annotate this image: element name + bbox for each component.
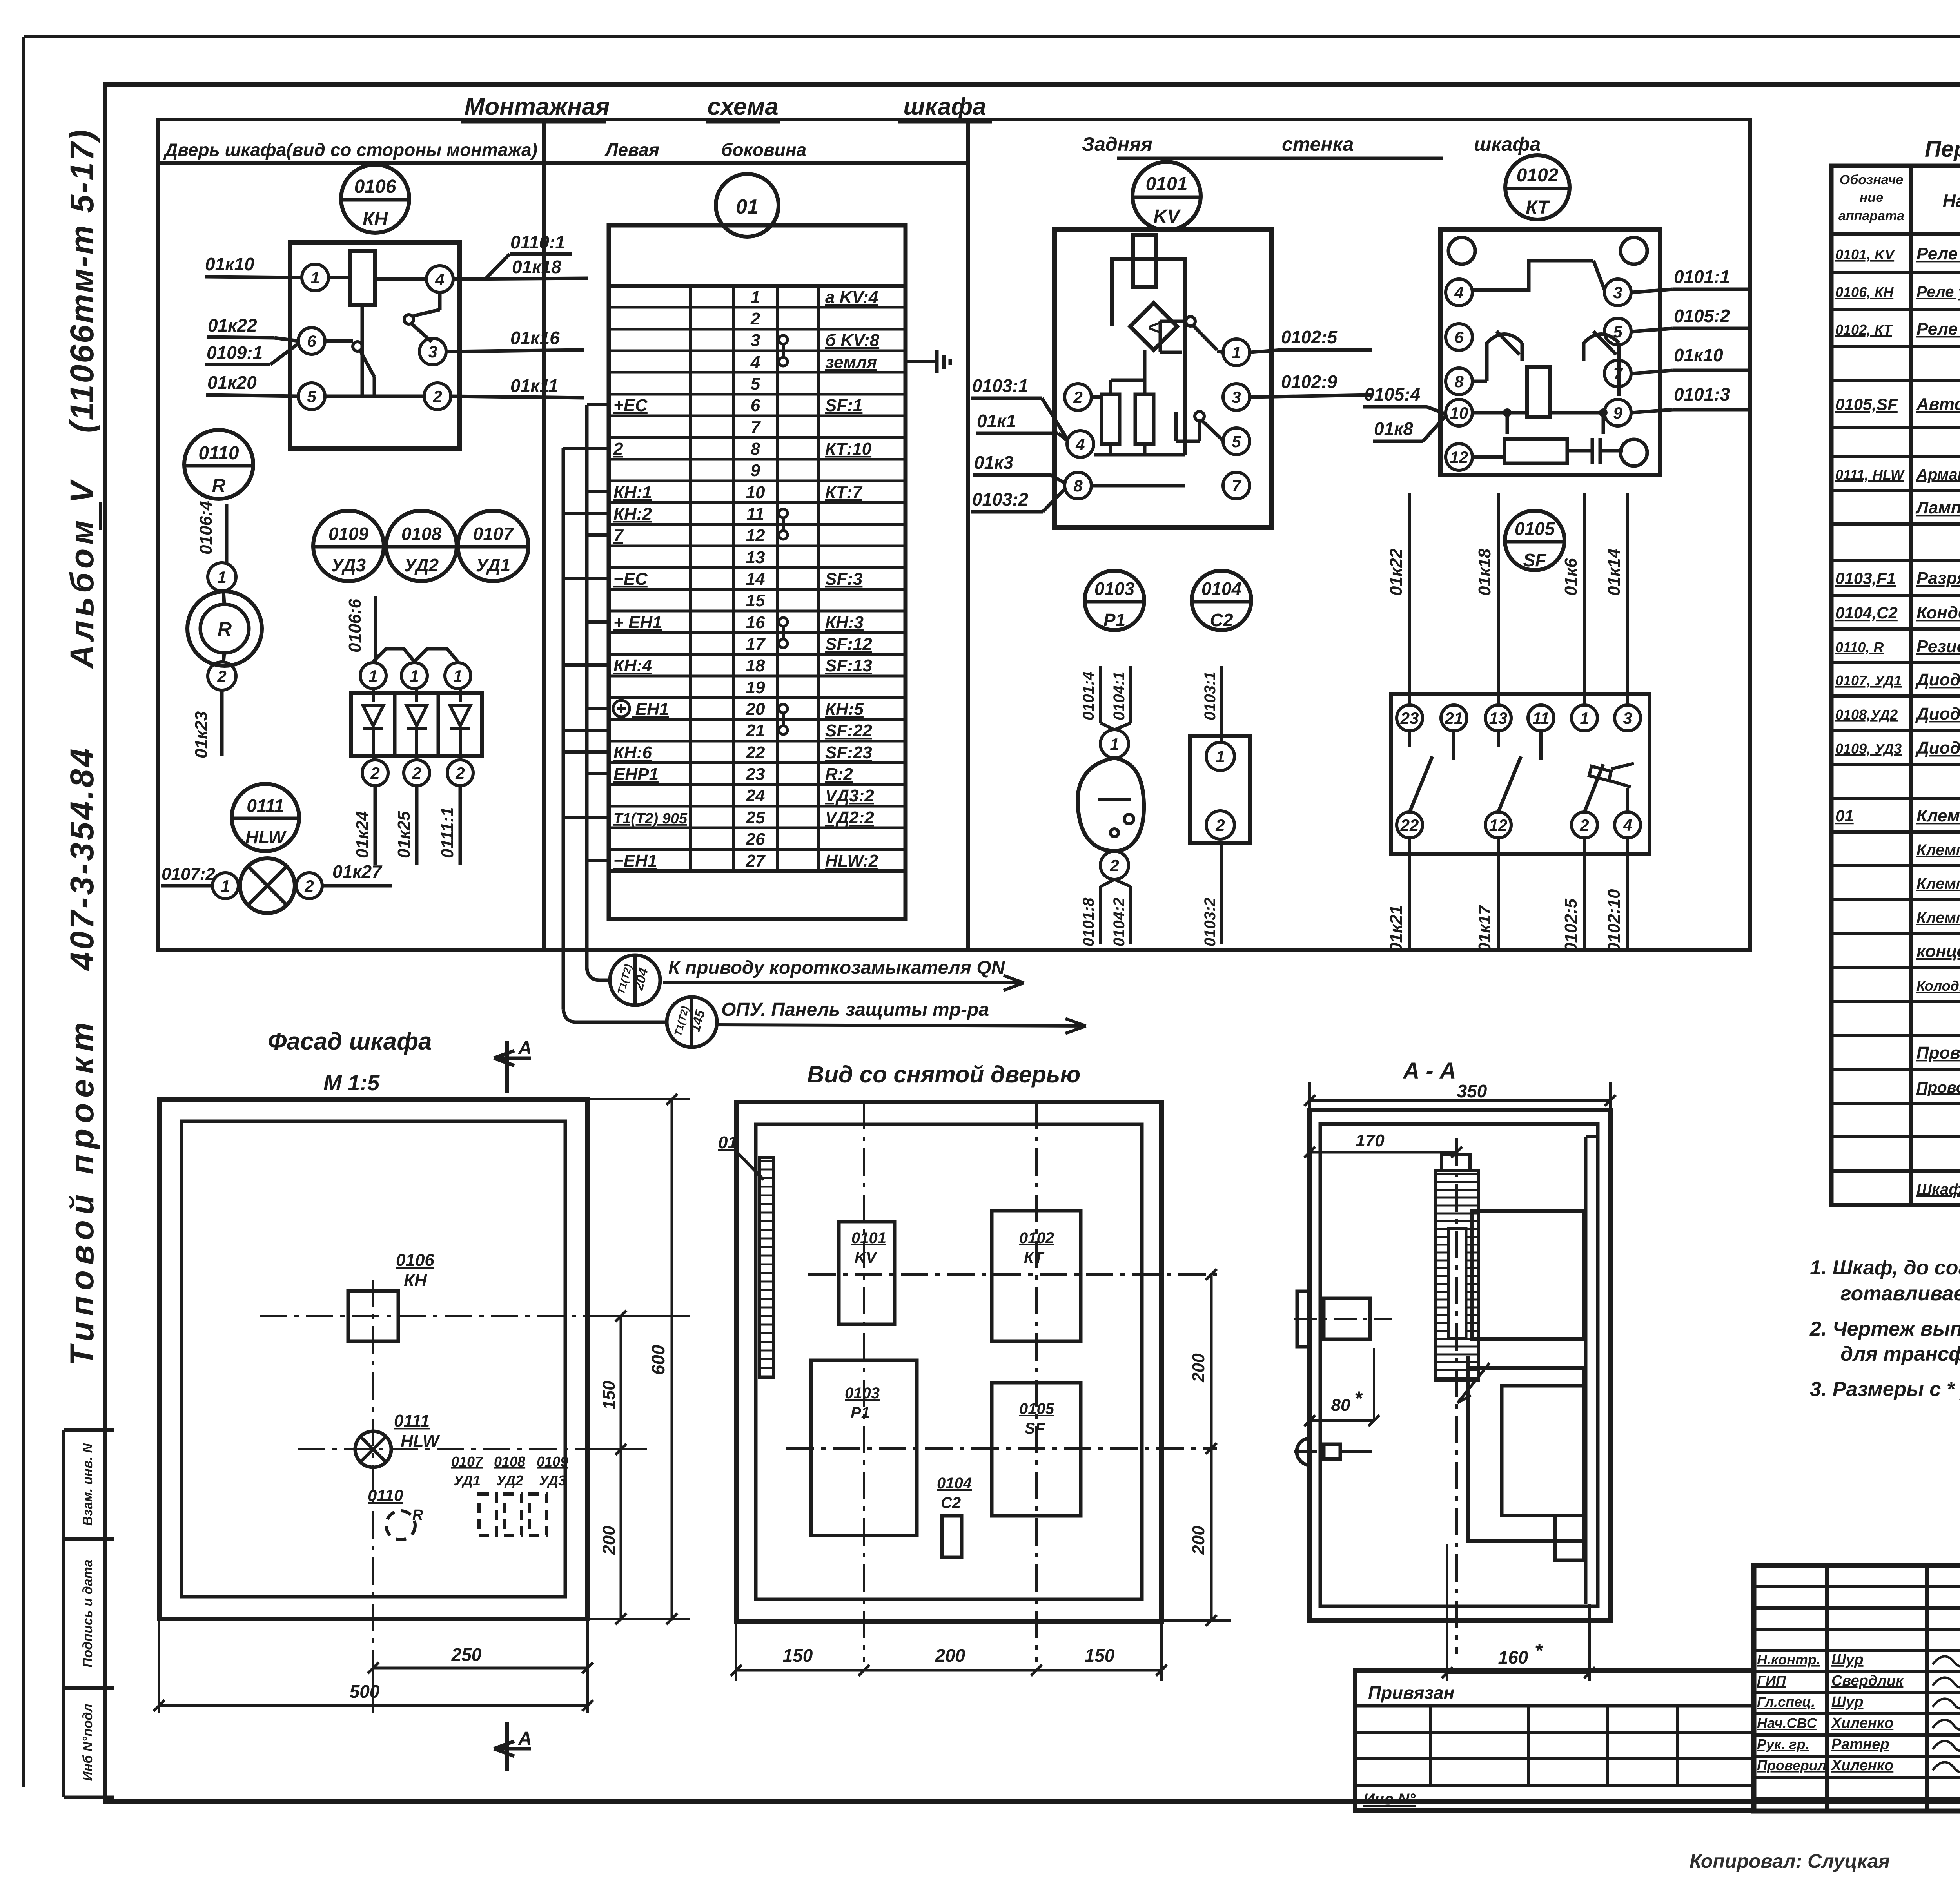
svg-text:Н.контр.: Н.контр. bbox=[1757, 1651, 1820, 1668]
svg-text:Реле указательное: Реле указательное bbox=[1916, 283, 1960, 301]
svg-text:<: < bbox=[1148, 316, 1160, 339]
svg-text:200: 200 bbox=[1189, 1526, 1208, 1555]
svg-text:1: 1 bbox=[410, 667, 419, 685]
svg-text:Р1: Р1 bbox=[851, 1404, 870, 1421]
svg-text:Вид со снятой дверью: Вид со снятой дверью bbox=[807, 1061, 1080, 1088]
svg-text:7: 7 bbox=[613, 526, 624, 545]
svg-text:200: 200 bbox=[1189, 1353, 1208, 1383]
svg-text:Клемма специальная: Клемма специальная bbox=[1916, 909, 1960, 926]
svg-text:160: 160 bbox=[1498, 1647, 1528, 1668]
svg-text:350: 350 bbox=[1457, 1081, 1487, 1101]
svg-text:0106:4: 0106:4 bbox=[196, 501, 216, 555]
svg-text:УД2: УД2 bbox=[496, 1472, 523, 1488]
svg-text:SF:13: SF:13 bbox=[825, 656, 872, 675]
svg-text:4: 4 bbox=[1622, 816, 1632, 834]
svg-text:Дверь шкафа(вид со стороны мон: Дверь шкафа(вид со стороны монтажа) bbox=[163, 140, 537, 160]
svg-text:0111:1: 0111:1 bbox=[438, 807, 457, 858]
svg-text:0108: 0108 bbox=[401, 524, 442, 544]
svg-text:КН:5: КН:5 bbox=[825, 700, 864, 719]
svg-text:24: 24 bbox=[746, 786, 765, 805]
svg-text:01к24: 01к24 bbox=[353, 811, 372, 858]
svg-text:Лампа сигнальная: Лампа сигнальная bbox=[1915, 498, 1960, 517]
svg-text:КН:2: КН:2 bbox=[613, 504, 652, 524]
svg-text:0107: 0107 bbox=[473, 524, 514, 544]
svg-text:0106: 0106 bbox=[396, 1251, 434, 1270]
svg-text:200: 200 bbox=[935, 1645, 965, 1666]
svg-text:КН: КН bbox=[363, 209, 388, 230]
svg-text:01к18: 01к18 bbox=[1475, 548, 1494, 596]
svg-text:шкафа: шкафа bbox=[1474, 133, 1541, 155]
svg-text:УД3: УД3 bbox=[331, 555, 366, 575]
svg-text:0108,УД2: 0108,УД2 bbox=[1835, 707, 1898, 723]
svg-text:150: 150 bbox=[783, 1645, 813, 1666]
svg-text:1: 1 bbox=[1580, 709, 1589, 727]
svg-text:3: 3 bbox=[1613, 283, 1622, 302]
svg-text:Т1(Т2) 905: Т1(Т2) 905 bbox=[613, 810, 688, 827]
svg-text:УД1: УД1 bbox=[476, 555, 510, 575]
svg-text:0105: 0105 bbox=[1515, 518, 1555, 539]
svg-text:0107: 0107 bbox=[451, 1454, 483, 1470]
svg-text:0111: 0111 bbox=[247, 796, 284, 816]
svg-text:2: 2 bbox=[432, 387, 442, 406]
svg-text:Рук. гр.: Рук. гр. bbox=[1757, 1736, 1809, 1752]
svg-text:0111: 0111 bbox=[394, 1411, 430, 1430]
svg-text:11: 11 bbox=[1532, 709, 1550, 727]
svg-text:0104:2: 0104:2 bbox=[1111, 897, 1128, 946]
svg-text:Подпись и дата: Подпись и дата bbox=[80, 1559, 95, 1668]
svg-text:КТ:7: КТ:7 bbox=[825, 483, 863, 502]
svg-text:Арматура сигнальная: Арматура сигнальная bbox=[1916, 466, 1960, 483]
svg-text:3: 3 bbox=[1232, 388, 1241, 406]
svg-text:Инв.N°: Инв.N° bbox=[1363, 1791, 1416, 1808]
svg-text:земля: земля bbox=[825, 353, 877, 372]
svg-text:01: 01 bbox=[736, 196, 759, 218]
svg-text:0109:1: 0109:1 bbox=[207, 343, 263, 363]
svg-text:250: 250 bbox=[451, 1644, 482, 1665]
svg-text:Автомат: Автомат bbox=[1916, 395, 1960, 414]
svg-text:SF:23: SF:23 bbox=[825, 743, 872, 762]
svg-text:SF:12: SF:12 bbox=[825, 634, 872, 654]
svg-text:0103:2: 0103:2 bbox=[1201, 897, 1219, 946]
svg-text:200: 200 bbox=[599, 1526, 619, 1555]
svg-text:1. Шкаф, до согласования со: 1. Шкаф, до согласования со щитостроител… bbox=[1810, 1256, 1960, 1279]
svg-text:0107:2: 0107:2 bbox=[162, 865, 216, 884]
svg-text:концевая: концевая bbox=[1916, 942, 1960, 961]
svg-text:2: 2 bbox=[217, 667, 226, 685]
svg-text:7: 7 bbox=[1232, 477, 1241, 495]
svg-text:б KV:8: б KV:8 bbox=[825, 331, 880, 350]
svg-text:01к10: 01к10 bbox=[205, 254, 254, 274]
svg-text:7: 7 bbox=[751, 418, 761, 437]
svg-text:Ратнер: Ратнер bbox=[1831, 1736, 1889, 1753]
svg-text:3: 3 bbox=[428, 343, 437, 361]
svg-text:*: * bbox=[1354, 1387, 1363, 1409]
svg-text:Хиленко: Хиленко bbox=[1831, 1757, 1893, 1774]
svg-text:1: 1 bbox=[1232, 343, 1241, 362]
svg-text:4: 4 bbox=[1075, 435, 1085, 453]
svg-text:*: * bbox=[1535, 1640, 1544, 1662]
svg-text:С2: С2 bbox=[1210, 610, 1233, 630]
svg-text:0110:1: 0110:1 bbox=[510, 232, 565, 252]
svg-text:боковина: боковина bbox=[721, 140, 806, 160]
svg-text:0103,F1: 0103,F1 bbox=[1835, 569, 1896, 587]
svg-text:0110: 0110 bbox=[198, 443, 239, 464]
svg-text:0105:2: 0105:2 bbox=[1674, 306, 1730, 326]
svg-text:R:2: R:2 bbox=[825, 765, 853, 784]
svg-text:Монтажная: Монтажная bbox=[465, 93, 610, 120]
svg-text:150: 150 bbox=[1085, 1645, 1115, 1666]
svg-text:−ЕС: −ЕС bbox=[613, 569, 648, 589]
svg-text:R: R bbox=[218, 618, 232, 640]
svg-text:HLW: HLW bbox=[245, 827, 287, 847]
svg-text:80: 80 bbox=[1331, 1396, 1350, 1415]
svg-text:1: 1 bbox=[1216, 747, 1225, 766]
svg-text:Фасад шкафа: Фасад шкафа bbox=[268, 1028, 432, 1055]
svg-text:25: 25 bbox=[746, 808, 765, 827]
svg-text:2: 2 bbox=[1073, 388, 1082, 406]
svg-text:2: 2 bbox=[750, 309, 760, 328]
svg-text:2: 2 bbox=[1215, 816, 1225, 834]
svg-text:Гл.спец.: Гл.спец. bbox=[1757, 1694, 1815, 1710]
svg-text:SF:3: SF:3 bbox=[825, 569, 862, 589]
svg-text:а KV:4: а KV:4 bbox=[825, 288, 878, 307]
svg-text:2: 2 bbox=[412, 764, 421, 782]
svg-text:SF:22: SF:22 bbox=[825, 721, 872, 740]
svg-text:17: 17 bbox=[746, 634, 766, 654]
svg-text:0104,С2: 0104,С2 bbox=[1835, 604, 1898, 622]
svg-text:R: R bbox=[212, 475, 226, 496]
svg-text:18: 18 bbox=[746, 656, 765, 675]
svg-text:11: 11 bbox=[746, 504, 764, 524]
svg-text:26: 26 bbox=[746, 830, 765, 849]
svg-text:150: 150 bbox=[599, 1381, 619, 1410]
svg-text:0103: 0103 bbox=[845, 1385, 880, 1402]
svg-text:VД3:2: VД3:2 bbox=[825, 786, 874, 805]
svg-text:0104: 0104 bbox=[1201, 578, 1241, 599]
svg-text:1: 1 bbox=[1110, 735, 1119, 753]
svg-text:ОПУ. Панель защиты тр-ра: ОПУ. Панель защиты тр-ра bbox=[721, 999, 989, 1020]
svg-text:Перечень: Перечень bbox=[1925, 136, 1960, 162]
svg-text:12: 12 bbox=[746, 526, 765, 545]
svg-text:5: 5 bbox=[307, 387, 316, 406]
svg-text:КТ: КТ bbox=[1526, 197, 1550, 218]
svg-text:0102:5: 0102:5 bbox=[1281, 327, 1338, 347]
svg-text:SF: SF bbox=[1025, 1420, 1045, 1437]
svg-text:Клемма специальная: Клемма специальная bbox=[1916, 875, 1960, 892]
svg-text:Колодка маркировочная: Колодка маркировочная bbox=[1916, 978, 1960, 994]
svg-text:01к10: 01к10 bbox=[1674, 345, 1723, 365]
svg-text:Клеммной ряд: Клеммной ряд bbox=[1916, 806, 1960, 825]
svg-text:0104: 0104 bbox=[937, 1475, 972, 1492]
svg-text:Шур: Шур bbox=[1831, 1651, 1864, 1668]
svg-text:0105,SF: 0105,SF bbox=[1835, 395, 1898, 413]
svg-text:0102:10: 0102:10 bbox=[1604, 889, 1624, 952]
svg-text:0107, УД1: 0107, УД1 bbox=[1835, 673, 1902, 689]
svg-text:М 1:5: М 1:5 bbox=[323, 1070, 380, 1095]
svg-text:Шкаф металлический: Шкаф металлический bbox=[1916, 1181, 1960, 1198]
svg-text:−ЕН1: −ЕН1 bbox=[613, 851, 657, 870]
svg-text:КН:1: КН:1 bbox=[613, 483, 652, 502]
svg-text:10: 10 bbox=[1450, 404, 1468, 422]
svg-text:для трансформатора Т2 с учет: для трансформатора Т2 с учетом изменений… bbox=[1840, 1343, 1960, 1365]
svg-text:0111, HLW: 0111, HLW bbox=[1835, 467, 1905, 483]
svg-text:9: 9 bbox=[751, 461, 760, 480]
svg-text:01к21: 01к21 bbox=[1387, 905, 1406, 952]
svg-text:Привязан: Привязан bbox=[1368, 1682, 1454, 1703]
svg-text:0103:1: 0103:1 bbox=[972, 375, 1028, 396]
svg-text:Реле времени: Реле времени bbox=[1916, 319, 1960, 339]
svg-text:0103: 0103 bbox=[1094, 578, 1135, 599]
svg-text:HLW: HLW bbox=[401, 1432, 440, 1451]
svg-text:1: 1 bbox=[453, 667, 462, 685]
svg-text:2: 2 bbox=[304, 877, 314, 895]
svg-text:ГИП: ГИП bbox=[1757, 1673, 1786, 1689]
svg-text:6: 6 bbox=[307, 332, 316, 350]
svg-text:9: 9 bbox=[1613, 404, 1622, 422]
svg-text:12: 12 bbox=[1450, 448, 1468, 466]
svg-text:2: 2 bbox=[1109, 856, 1119, 875]
svg-text:27: 27 bbox=[746, 851, 766, 870]
svg-text:HLW:2: HLW:2 bbox=[825, 851, 878, 870]
svg-text:0104:1: 0104:1 bbox=[1111, 671, 1128, 720]
svg-text:13: 13 bbox=[746, 548, 765, 567]
svg-text:0102: 0102 bbox=[1517, 165, 1559, 186]
svg-text:А: А bbox=[518, 1728, 532, 1749]
svg-text:1: 1 bbox=[751, 288, 760, 307]
svg-text:8: 8 bbox=[1073, 477, 1083, 495]
svg-text:готавливается на монтажно-за: готавливается на монтажно-заготовительно… bbox=[1840, 1282, 1960, 1305]
svg-text:01к25: 01к25 bbox=[394, 811, 414, 858]
svg-text:0101: 0101 bbox=[851, 1229, 886, 1247]
svg-text:Р1: Р1 bbox=[1103, 610, 1125, 630]
svg-text:Обозначе: Обозначе bbox=[1840, 172, 1904, 187]
svg-text:Свердлик: Свердлик bbox=[1831, 1673, 1904, 1689]
svg-text:3: 3 bbox=[751, 331, 760, 350]
svg-text:8: 8 bbox=[1454, 372, 1464, 391]
svg-text:0101:8: 0101:8 bbox=[1080, 897, 1097, 946]
svg-text:шкафа: шкафа bbox=[903, 93, 986, 120]
svg-text:0109, УД3: 0109, УД3 bbox=[1835, 741, 1902, 757]
svg-text:16: 16 bbox=[746, 613, 765, 632]
svg-text:Реле напряжения: Реле напряжения bbox=[1916, 244, 1960, 263]
svg-text:ЕНР1: ЕНР1 bbox=[613, 765, 659, 784]
svg-text:аппарата: аппарата bbox=[1838, 208, 1904, 223]
svg-text:УД3: УД3 bbox=[539, 1472, 566, 1488]
svg-text:0101: 0101 bbox=[1146, 174, 1188, 194]
svg-text:КТ: КТ bbox=[1024, 1249, 1045, 1266]
svg-text:01к1: 01к1 bbox=[977, 411, 1016, 431]
svg-text:SF:1: SF:1 bbox=[825, 396, 862, 415]
svg-text:Типовой проект: Типовой проект bbox=[64, 1017, 100, 1366]
svg-text:0101:1: 0101:1 bbox=[1674, 266, 1730, 287]
svg-text:0101:4: 0101:4 bbox=[1080, 671, 1097, 720]
svg-text:VД2:2: VД2:2 bbox=[825, 808, 874, 827]
svg-text:22: 22 bbox=[1400, 816, 1419, 834]
svg-text:01к17: 01к17 bbox=[1475, 904, 1494, 952]
svg-text:1: 1 bbox=[221, 877, 230, 895]
svg-text:2. Чертеж выполнен для тран: 2. Чертеж выполнен для трансформатора Т1… bbox=[1809, 1318, 1960, 1340]
svg-text:УД2: УД2 bbox=[404, 555, 439, 575]
svg-text:1: 1 bbox=[310, 268, 319, 287]
svg-text:23: 23 bbox=[746, 765, 765, 784]
svg-text:01к23: 01к23 bbox=[192, 711, 211, 758]
svg-text:0105:4: 0105:4 bbox=[1364, 384, 1420, 404]
svg-text:4: 4 bbox=[1454, 283, 1463, 302]
svg-text:+ЕС: +ЕС bbox=[613, 396, 648, 415]
svg-text:Проверил: Проверил bbox=[1757, 1757, 1826, 1773]
svg-text:КН:6: КН:6 bbox=[613, 743, 652, 762]
svg-text:4: 4 bbox=[435, 270, 444, 288]
svg-text:0103:1: 0103:1 bbox=[1201, 671, 1219, 720]
svg-text:КН:4: КН:4 bbox=[613, 656, 652, 675]
svg-text:8: 8 bbox=[751, 439, 760, 459]
svg-text:170: 170 bbox=[1356, 1131, 1385, 1150]
svg-text:0106, КН: 0106, КН bbox=[1835, 284, 1894, 300]
svg-text:01: 01 bbox=[1835, 807, 1854, 825]
svg-text:(11066тм-т 5-17): (11066тм-т 5-17) bbox=[64, 128, 100, 433]
svg-text:УД1: УД1 bbox=[454, 1472, 481, 1488]
svg-text:15: 15 bbox=[746, 591, 765, 610]
svg-text:407-3-354.84: 407-3-354.84 bbox=[64, 746, 100, 971]
svg-text:500: 500 bbox=[350, 1681, 380, 1702]
svg-text:1: 1 bbox=[217, 568, 226, 586]
svg-text:3: 3 bbox=[1623, 709, 1632, 727]
svg-text:Левая: Левая bbox=[604, 140, 659, 160]
svg-text:Провод монтажный: Провод монтажный bbox=[1916, 1043, 1960, 1062]
svg-text:Резистор: Резистор bbox=[1916, 637, 1960, 656]
svg-text:0103:2: 0103:2 bbox=[972, 489, 1029, 509]
svg-text:22: 22 bbox=[746, 743, 765, 762]
svg-text:Альбом V: Альбом V bbox=[64, 477, 100, 669]
svg-text:0106: 0106 bbox=[354, 176, 396, 197]
svg-text:КТ:10: КТ:10 bbox=[825, 439, 872, 459]
svg-text:01к16: 01к16 bbox=[510, 328, 560, 348]
svg-text:0102:5: 0102:5 bbox=[1561, 898, 1581, 952]
svg-text:23: 23 bbox=[1400, 709, 1419, 727]
svg-text:+ ЕН1: + ЕН1 bbox=[613, 613, 662, 632]
svg-text:ЕН1: ЕН1 bbox=[632, 700, 669, 719]
svg-text:12: 12 bbox=[1489, 816, 1508, 834]
svg-text:01к3: 01к3 bbox=[974, 452, 1013, 473]
svg-text:Шур: Шур bbox=[1831, 1694, 1864, 1710]
svg-text:01к14: 01к14 bbox=[1604, 549, 1624, 596]
svg-text:2: 2 bbox=[370, 764, 379, 782]
svg-text:13: 13 bbox=[1489, 709, 1508, 727]
svg-text:SF: SF bbox=[1523, 550, 1547, 570]
svg-text:Взам. инв. N: Взам. инв. N bbox=[80, 1443, 95, 1526]
svg-text:Конденсатор: Конденсатор bbox=[1916, 603, 1960, 622]
svg-text:Задняя: Задняя bbox=[1082, 133, 1152, 155]
svg-text:А: А bbox=[518, 1038, 532, 1059]
svg-text:КН:3: КН:3 bbox=[825, 613, 864, 632]
svg-text:КН: КН bbox=[404, 1271, 427, 1290]
svg-text:4: 4 bbox=[750, 353, 760, 372]
svg-text:3. Размеры с * указаны для: 3. Размеры с * указаны для справки. bbox=[1810, 1378, 1960, 1401]
svg-text:С2: С2 bbox=[941, 1494, 961, 1512]
svg-text:Клемма нормальная: Клемма нормальная bbox=[1916, 841, 1960, 859]
svg-text:0109: 0109 bbox=[328, 524, 369, 544]
svg-text:KV: KV bbox=[855, 1249, 878, 1266]
svg-text:KV: KV bbox=[1154, 206, 1181, 227]
svg-text:01к20: 01к20 bbox=[207, 372, 257, 393]
svg-text:0110, R: 0110, R bbox=[1835, 639, 1884, 655]
svg-text:ние: ние bbox=[1860, 190, 1883, 205]
svg-text:Инб N°подл: Инб N°подл bbox=[80, 1704, 95, 1781]
svg-text:0102, КТ: 0102, КТ bbox=[1835, 322, 1893, 338]
svg-text:0110: 0110 bbox=[368, 1486, 403, 1505]
svg-text:600: 600 bbox=[648, 1345, 668, 1375]
svg-text:Диод кремниевый: Диод кремниевый bbox=[1915, 670, 1960, 689]
svg-text:6: 6 bbox=[751, 396, 760, 415]
svg-text:Хиленко: Хиленко bbox=[1831, 1715, 1893, 1731]
svg-text:01к22: 01к22 bbox=[1387, 548, 1406, 596]
svg-text:Диод кремниевый: Диод кремниевый bbox=[1915, 704, 1960, 723]
svg-text:Диод кремниевый: Диод кремниевый bbox=[1915, 738, 1960, 758]
svg-text:20: 20 bbox=[746, 700, 765, 719]
svg-text:Наименование: Наименование bbox=[1943, 190, 1960, 211]
svg-text:Нач.СВС: Нач.СВС bbox=[1757, 1715, 1817, 1731]
svg-text:1: 1 bbox=[368, 667, 377, 685]
svg-text:01к18: 01к18 bbox=[512, 257, 561, 277]
svg-text:21: 21 bbox=[746, 721, 765, 740]
svg-text:01к11: 01к11 bbox=[510, 375, 558, 396]
svg-text:схема: схема bbox=[707, 93, 778, 120]
svg-text:К приводу короткозамыкателя Q: К приводу короткозамыкателя QN bbox=[668, 957, 1005, 978]
svg-text:0108: 0108 bbox=[494, 1454, 525, 1470]
svg-text:стенка: стенка bbox=[1282, 133, 1354, 155]
svg-text:14: 14 bbox=[746, 569, 765, 589]
svg-text:01к27: 01к27 bbox=[332, 861, 383, 882]
svg-text:Провод монт. гибкий: Провод монт. гибкий bbox=[1916, 1079, 1960, 1096]
svg-text:0106:6: 0106:6 bbox=[345, 598, 365, 653]
svg-text:01к22: 01к22 bbox=[208, 315, 257, 335]
svg-text:5: 5 bbox=[751, 374, 760, 393]
svg-text:Копировал: Слуцкая: Копировал: Слуцкая bbox=[1690, 1850, 1890, 1872]
svg-text:01к6: 01к6 bbox=[1561, 558, 1581, 596]
svg-text:0101, KV: 0101, KV bbox=[1835, 247, 1895, 263]
svg-text:2: 2 bbox=[613, 439, 623, 459]
svg-text:19: 19 bbox=[746, 678, 765, 697]
svg-text:2: 2 bbox=[455, 764, 465, 782]
svg-text:01: 01 bbox=[718, 1133, 737, 1152]
svg-text:А - А: А - А bbox=[1402, 1058, 1456, 1084]
svg-text:5: 5 bbox=[1232, 432, 1241, 451]
svg-text:01к8: 01к8 bbox=[1374, 419, 1413, 439]
svg-text:10: 10 bbox=[746, 483, 765, 502]
svg-text:2: 2 bbox=[1579, 816, 1589, 834]
svg-text:6: 6 bbox=[1454, 328, 1464, 346]
svg-text:Разрядник: Разрядник bbox=[1916, 569, 1960, 588]
svg-text:0102:9: 0102:9 bbox=[1281, 372, 1338, 392]
svg-text:21: 21 bbox=[1445, 709, 1463, 727]
svg-text:0109: 0109 bbox=[537, 1454, 568, 1470]
svg-text:0101:3: 0101:3 bbox=[1674, 384, 1730, 404]
